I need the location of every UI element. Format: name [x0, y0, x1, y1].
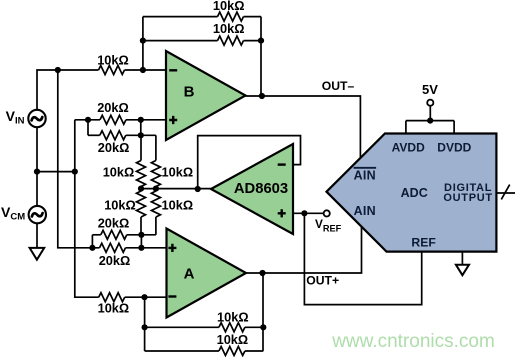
svg-text:10kΩ: 10kΩ [213, 21, 245, 36]
svg-text:10kΩ: 10kΩ [104, 198, 136, 213]
svg-text:ADC: ADC [401, 186, 428, 200]
svg-text:10kΩ: 10kΩ [97, 52, 129, 67]
wire A+ 20k row1 [92, 235, 155, 248]
wire B output to ADC AIN- [246, 96, 361, 160]
wire digital output bus [496, 192, 515, 194]
wire B feedback network [143, 17, 261, 96]
svg-text:10kΩ: 10kΩ [217, 332, 249, 347]
wire VIN bottom to VCM top [36, 127, 38, 205]
wire AD8603 + input to VREF terminal [293, 212, 323, 214]
resistor R12 10k feedback second [218, 36, 244, 45]
wire REF ground stem [461, 252, 463, 265]
resistor R2 20k (lower row to A+) [100, 243, 126, 252]
node VCM line [72, 169, 78, 175]
terminal VREF [324, 210, 330, 216]
svg-text:DVDD: DVDD [437, 141, 471, 155]
node mid divider right [153, 186, 159, 192]
node A output [259, 270, 265, 276]
svg-text:REF: REF [411, 235, 435, 249]
terminal 5V [427, 100, 433, 106]
svg-text:OUT+: OUT+ [306, 274, 339, 288]
wire VCM to ground [36, 224, 38, 248]
ADC U2 [327, 134, 497, 252]
wire to A- [125, 296, 167, 298]
node A+ row2 right [138, 245, 144, 251]
node B output [259, 93, 265, 99]
svg-text:OUT–: OUT– [322, 79, 355, 93]
node B+ row1 left [85, 117, 91, 123]
svg-text:www.cntronics.com: www.cntronics.com [331, 331, 495, 352]
node A fb row1 right [260, 324, 266, 330]
svg-text:10kΩ: 10kΩ [162, 198, 194, 213]
source VCM [29, 206, 46, 223]
minus A [168, 295, 176, 297]
node B- feedback [140, 67, 146, 73]
svg-text:20kΩ: 20kΩ [97, 100, 129, 115]
resistor R7 10k vertical upper-right [151, 161, 160, 187]
wire 5V to AVDD DVDD [406, 106, 454, 133]
wire VCM node link [37, 171, 75, 173]
op-amp U1 AD8603 [211, 144, 293, 234]
wire VCM line (x=74.8) down to A- resistor [75, 120, 99, 297]
node A 20k row1 right [138, 232, 144, 238]
wire VIN top to B- input (y=70) [37, 70, 166, 109]
svg-text:20kΩ: 20kΩ [99, 253, 131, 268]
plus B [169, 116, 177, 124]
node A+ row2 left [89, 245, 95, 251]
minus U1 [278, 163, 286, 165]
node B+ row2 right [138, 132, 144, 138]
plus U1 [278, 209, 286, 217]
svg-text:20kΩ: 20kΩ [98, 140, 130, 155]
svg-text:10kΩ: 10kΩ [162, 164, 194, 179]
wire VIN line down to A+ network (x=57.8) [58, 70, 100, 248]
wire AD8603 feedback loop [198, 136, 301, 189]
wire to A+ [126, 247, 167, 249]
node 5V [427, 118, 433, 124]
wire A feedback network [145, 273, 264, 351]
wire A output to ADC AIN+ [246, 227, 362, 274]
node B+ row1 right [138, 117, 144, 123]
svg-text:OUTPUT: OUTPUT [443, 192, 492, 204]
resistor R13 10k feedback A row1 [219, 323, 245, 332]
svg-text:AVDD: AVDD [392, 141, 425, 155]
resistor R11 10k feedback top [218, 12, 244, 21]
node VCM source [34, 169, 40, 175]
svg-text:10kΩ: 10kΩ [217, 309, 249, 324]
op-amp A [167, 229, 247, 318]
svg-text:10kΩ: 10kΩ [98, 301, 130, 316]
wire lower divider verticals [141, 189, 156, 235]
resistor R5 20k (row2 B+) [100, 131, 126, 140]
wire VREF node down to REF pin [304, 213, 421, 304]
source VIN [28, 110, 45, 127]
wire upper divider verticals [141, 135, 156, 188]
node A fb row1 left [142, 324, 148, 330]
node VIN/B- tap [55, 67, 61, 73]
node VREF [301, 210, 307, 216]
resistor R4 20k (row1 B+) [100, 115, 126, 124]
resistor R8 10k vertical lower-left [137, 191, 146, 217]
svg-text:AD8603: AD8603 [234, 181, 288, 197]
node fb row2 left [140, 38, 146, 44]
svg-text:AIN: AIN [354, 204, 376, 218]
svg-text:10kΩ: 10kΩ [213, 0, 245, 13]
node fb row2 right [258, 38, 264, 44]
svg-text:AIN: AIN [354, 168, 376, 182]
node AD8603 output [195, 186, 201, 192]
resistor R3 10k (VCM to A-) [99, 293, 125, 302]
plus A [168, 244, 176, 252]
resistor R14 10k feedback A row2 [219, 347, 245, 356]
node A- input [141, 294, 147, 300]
wire mid row to AD8603 output [141, 188, 211, 190]
ground at VCM [30, 248, 45, 260]
resistor R10 20k (row1 A+) [101, 230, 127, 239]
op-amp B [166, 51, 246, 140]
resistor R1 10k (VIN to B-) [99, 66, 125, 75]
wire B+ 20k row1 [75, 120, 166, 136]
resistor R6 10k vertical upper-left [137, 161, 146, 187]
minus B [169, 69, 177, 71]
svg-text:A: A [184, 266, 195, 283]
svg-text:B: B [184, 84, 195, 101]
svg-text:10kΩ: 10kΩ [103, 164, 135, 179]
svg-text:5V: 5V [422, 82, 438, 97]
node mid divider left [138, 186, 144, 192]
svg-text:20kΩ: 20kΩ [98, 216, 130, 231]
resistor R9 10k vertical lower-right [151, 191, 160, 217]
bus slash [501, 185, 509, 200]
ground at ADC [456, 265, 469, 276]
